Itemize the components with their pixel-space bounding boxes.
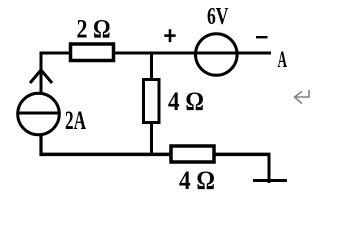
wire ground drop vertical <box>268 154 271 183</box>
svg-text:2A: 2A <box>65 106 86 135</box>
wire bottom right (resistor to ground corner) <box>214 153 271 157</box>
resistor R1 2ohm rectangle <box>71 44 114 61</box>
svg-text:6V: 6V <box>207 4 229 30</box>
svg-text:4 Ω: 4 Ω <box>179 166 215 194</box>
wire top horizontal from left corner through R1 and voltage source to node A <box>40 52 272 55</box>
wire middle vertical branch (top wire to vertical resistor) <box>150 52 153 81</box>
paragraph return mark <box>295 90 310 104</box>
wire bottom horizontal (left corner to bottom resistor) <box>40 153 172 157</box>
svg-text:A: A <box>278 47 288 72</box>
voltage source US 6V circle <box>196 34 238 76</box>
current direction arrowhead on left wire <box>30 70 52 83</box>
ground bar <box>253 179 287 182</box>
resistor R2 4ohm vertical rectangle <box>144 80 160 123</box>
wire left vertical (top corner down to current source) <box>40 52 43 95</box>
svg-text:2 Ω: 2 Ω <box>77 15 111 44</box>
plus polarity sign <box>164 29 175 42</box>
resistor R3 4ohm bottom rectangle <box>171 146 214 162</box>
wire middle vertical (vertical resistor to bottom wire) <box>150 122 153 156</box>
svg-text:4 Ω: 4 Ω <box>168 87 204 116</box>
current source bar through circle <box>17 112 61 115</box>
wire left vertical (current source down to bottom wire) <box>39 134 42 156</box>
minus polarity sign <box>256 36 268 38</box>
current source IS 2A circle <box>18 93 60 135</box>
